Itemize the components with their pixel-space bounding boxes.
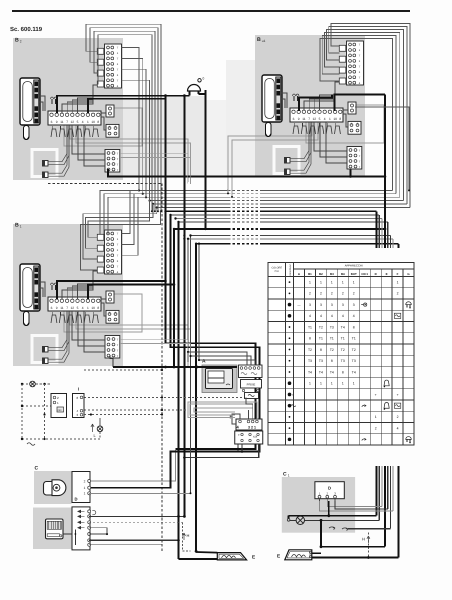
svg-text:1: 1 <box>342 280 344 284</box>
svg-text:T4: T4 <box>352 370 356 374</box>
svg-text:9: 9 <box>56 306 58 310</box>
svg-text:H: H <box>362 537 365 542</box>
svg-text:230: 230 <box>58 409 63 412</box>
svg-text:T4: T4 <box>330 370 334 374</box>
svg-text:4: 4 <box>397 426 399 430</box>
svg-text:T2: T2 <box>330 348 334 352</box>
svg-text:DESIGNAZ.: DESIGNAZ. <box>289 263 292 275</box>
svg-text:1: 1 <box>397 280 399 284</box>
svg-text:4: 4 <box>353 314 355 318</box>
svg-text:10: 10 <box>91 120 95 124</box>
svg-text:T1: T1 <box>319 337 323 341</box>
svg-text:1: 1 <box>331 280 333 284</box>
svg-text:3: 3 <box>353 303 355 307</box>
svg-text:0: 0 <box>203 77 205 81</box>
svg-text:T3: T3 <box>341 359 345 363</box>
svg-text:T3: T3 <box>330 325 334 329</box>
svg-text:5: 5 <box>77 306 79 310</box>
svg-text:1: 1 <box>375 415 377 419</box>
svg-text:8: 8 <box>97 120 99 124</box>
svg-text:B1: B1 <box>308 272 312 276</box>
svg-text:BUT: BUT <box>351 272 357 276</box>
svg-text:6: 6 <box>51 306 53 310</box>
svg-text:C: C <box>283 472 287 478</box>
svg-text:1: 1 <box>20 225 22 229</box>
svg-text:2: 2 <box>342 292 344 296</box>
svg-text:3 2 1: 3 2 1 <box>248 426 256 430</box>
svg-text:1: 1 <box>353 382 355 386</box>
svg-text:11: 11 <box>60 306 64 310</box>
svg-text:3: 3 <box>342 303 344 307</box>
svg-text:T3: T3 <box>352 359 356 363</box>
svg-text:T2: T2 <box>308 348 312 352</box>
svg-text:1: 1 <box>342 382 344 386</box>
svg-text:8: 8 <box>320 348 322 352</box>
svg-text:T3: T3 <box>319 359 323 363</box>
svg-text:+: + <box>397 393 399 397</box>
svg-text:1: 1 <box>87 306 89 310</box>
svg-text:APPARECCHI: APPARECCHI <box>345 264 363 268</box>
svg-text:B: B <box>257 37 261 43</box>
svg-text:T4: T4 <box>341 325 345 329</box>
svg-text:8: 8 <box>309 337 311 341</box>
svg-text:11: 11 <box>302 117 306 121</box>
svg-text:1: 1 <box>84 492 86 496</box>
svg-text:B: B <box>15 223 19 229</box>
svg-text:PRISE: PRISE <box>247 382 256 386</box>
svg-text:7: 7 <box>66 306 68 310</box>
svg-text:12: 12 <box>71 306 75 310</box>
svg-text:424: 424 <box>253 436 258 439</box>
svg-text:4: 4 <box>82 306 84 310</box>
svg-text:11: 11 <box>60 120 64 124</box>
svg-text:B2: B2 <box>319 272 323 276</box>
svg-text:C: C <box>35 466 39 472</box>
svg-text:T2: T2 <box>352 348 356 352</box>
svg-text:1: 1 <box>353 280 355 284</box>
svg-text:D: D <box>328 486 331 491</box>
svg-text:2: 2 <box>397 415 399 419</box>
svg-text:D: D <box>375 272 377 276</box>
svg-text:1: 1 <box>320 280 322 284</box>
svg-text:8: 8 <box>331 359 333 363</box>
svg-text:A: A <box>202 359 206 365</box>
svg-text:1: 1 <box>87 120 89 124</box>
svg-text:1: 1 <box>84 486 86 490</box>
svg-text:Sc. 600.119: Sc. 600.119 <box>10 26 43 33</box>
svg-text:1: 1 <box>309 382 311 386</box>
svg-text:I: I <box>78 387 79 392</box>
svg-text:6: 6 <box>51 120 53 124</box>
svg-text:4: 4 <box>82 120 84 124</box>
svg-text:T4: T4 <box>308 370 312 374</box>
svg-text:T1: T1 <box>308 325 312 329</box>
svg-text:4: 4 <box>342 314 344 318</box>
svg-text:+: + <box>292 393 294 397</box>
svg-text:FILI: FILI <box>275 270 280 273</box>
svg-text:T1: T1 <box>330 337 334 341</box>
svg-text:T: T <box>238 433 240 437</box>
svg-text:CIC1: CIC1 <box>361 272 368 276</box>
svg-text:1: 1 <box>309 280 311 284</box>
svg-text:2: 2 <box>309 292 311 296</box>
svg-text:T2: T2 <box>341 348 345 352</box>
svg-text:2: 2 <box>375 426 377 430</box>
svg-text:T2: T2 <box>319 325 323 329</box>
svg-text:2: 2 <box>320 292 322 296</box>
svg-text:3: 3 <box>331 303 333 307</box>
svg-text:2: 2 <box>397 292 399 296</box>
svg-text:7: 7 <box>308 117 310 121</box>
svg-text:B3: B3 <box>330 272 334 276</box>
svg-text:4: 4 <box>320 314 322 318</box>
svg-text:E: E <box>386 272 388 276</box>
svg-text:2: 2 <box>331 292 333 296</box>
svg-text:T3: T3 <box>308 359 312 363</box>
svg-text:6: 6 <box>293 117 295 121</box>
svg-text:9: 9 <box>298 117 300 121</box>
svg-text:H: H <box>187 533 190 538</box>
svg-text:10: 10 <box>333 117 337 121</box>
svg-text:10: 10 <box>91 306 95 310</box>
svg-text:+: + <box>375 393 377 397</box>
svg-text:B4: B4 <box>341 272 345 276</box>
svg-text:4: 4 <box>331 314 333 318</box>
svg-text:9: 9 <box>56 120 58 124</box>
svg-text:5: 5 <box>319 117 321 121</box>
svg-text:D: D <box>75 497 78 502</box>
svg-text:3: 3 <box>320 303 322 307</box>
svg-text:1: 1 <box>331 382 333 386</box>
svg-text:3: 3 <box>309 303 311 307</box>
svg-text:T1: T1 <box>352 337 356 341</box>
svg-text:u1: u1 <box>262 39 266 43</box>
svg-text:7: 7 <box>66 120 68 124</box>
svg-text:12: 12 <box>71 120 75 124</box>
svg-text:1: 1 <box>320 382 322 386</box>
svg-text:8: 8 <box>97 306 99 310</box>
svg-text:2: 2 <box>353 292 355 296</box>
svg-text:5: 5 <box>77 120 79 124</box>
svg-text:1: 1 <box>329 117 331 121</box>
svg-text:2: 2 <box>20 40 22 44</box>
svg-text:4: 4 <box>324 117 326 121</box>
svg-text:8: 8 <box>339 117 341 121</box>
svg-text:B: B <box>15 38 19 44</box>
svg-text:8: 8 <box>353 325 355 329</box>
svg-text:1: 1 <box>288 474 290 478</box>
svg-text:2: 2 <box>84 479 86 483</box>
svg-text:T1: T1 <box>341 337 345 341</box>
svg-text:4: 4 <box>309 314 311 318</box>
svg-text:12: 12 <box>313 117 317 121</box>
svg-text:T4: T4 <box>319 370 323 374</box>
svg-text:F: F <box>397 272 399 276</box>
svg-text:8: 8 <box>342 370 344 374</box>
